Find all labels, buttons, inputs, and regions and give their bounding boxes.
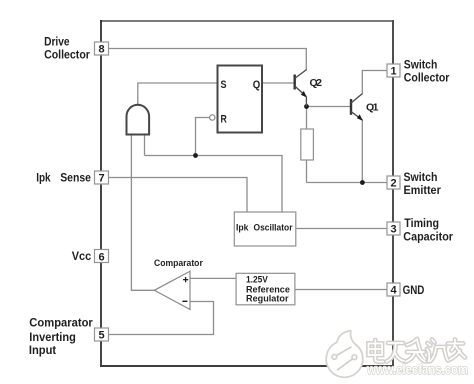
svg-text:Comparator: Comparator <box>154 258 203 268</box>
Ipk Oscillator block <box>234 212 295 246</box>
comparator plus sign <box>183 277 188 282</box>
svg-text:3: 3 <box>390 224 396 236</box>
watermark logo circle-leaf <box>326 331 363 378</box>
wire latch R input to node <box>196 118 210 156</box>
svg-text:Input: Input <box>29 344 56 357</box>
svg-text:1.25V: 1.25V <box>246 274 268 284</box>
transistor Q2 emitter arrow <box>301 91 307 98</box>
svg-text:www.elecfans.com: www.elecfans.com <box>366 362 468 377</box>
pin 1 box <box>387 64 400 77</box>
svg-text:Emitter: Emitter <box>404 184 442 197</box>
transistor Q1 <box>351 94 363 121</box>
transistor Q2 <box>295 70 307 107</box>
svg-text:R: R <box>221 114 227 126</box>
wire resistor bottom lead <box>306 160 308 183</box>
wire latch Q output to Q2 base <box>262 82 294 84</box>
transistor Q2 collector line <box>295 70 307 79</box>
pin 7 box <box>95 171 109 184</box>
svg-text:5: 5 <box>98 330 104 342</box>
wire resistor top lead <box>306 107 308 130</box>
svg-text:Ipk: Ipk <box>36 172 51 185</box>
svg-text:Q: Q <box>253 79 261 91</box>
wire pin5 to comparator minus input <box>109 302 214 335</box>
wire Q1 collector to pin1 <box>362 71 387 94</box>
wire bottom to pin2 <box>307 182 388 184</box>
svg-text:1: 1 <box>390 66 396 78</box>
svg-text:Ipk: Ipk <box>236 222 249 232</box>
svg-text:Timing: Timing <box>404 217 439 230</box>
svg-text:Capacitor: Capacitor <box>403 230 453 243</box>
svg-text:Oscillator: Oscillator <box>254 222 294 232</box>
svg-text:7: 7 <box>98 173 104 185</box>
resistor R1 <box>301 129 314 160</box>
svg-text:Vcc: Vcc <box>72 250 92 263</box>
svg-text:2: 2 <box>390 178 396 190</box>
wire pin7 to oscillator top <box>108 178 247 213</box>
comparator triangle <box>154 271 190 309</box>
svg-text:Inverting: Inverting <box>29 331 76 344</box>
svg-text:Switch: Switch <box>404 171 438 184</box>
pin 5 box <box>95 328 109 341</box>
1.25V Reference Regulator block <box>236 273 295 305</box>
wire reference to pin4 <box>295 289 388 291</box>
transistor Q1 emitter line <box>351 112 362 120</box>
wire node to oscillator top <box>145 156 283 213</box>
wire AND output to latch S input <box>138 83 217 105</box>
svg-text:Regulator: Regulator <box>246 294 289 304</box>
svg-text:S: S <box>221 79 227 91</box>
wire Q2 emitter to Q1 base <box>307 106 351 108</box>
svg-text:Q2: Q2 <box>310 77 323 89</box>
transistor Q1 base bar <box>350 99 352 115</box>
transistor Q2 emitter lead <box>305 97 307 107</box>
node R-AND junction <box>193 153 198 158</box>
pin 2 box <box>387 176 400 189</box>
wire reference to comparator plus input <box>188 277 237 279</box>
AND gate <box>127 105 150 135</box>
pin 3 box <box>387 222 400 235</box>
transistor Q2 emitter line <box>295 86 307 97</box>
wire pin8 to Q2 collector <box>108 49 306 70</box>
svg-text:Switch: Switch <box>404 59 438 72</box>
watermark chinese text <box>369 339 466 362</box>
wire Q1 emitter lead <box>361 120 363 183</box>
IC outline box <box>100 20 394 22</box>
pin 6 box <box>95 250 109 263</box>
svg-text:Drive: Drive <box>44 35 70 48</box>
latch U1 S-R box <box>218 66 263 133</box>
pin 8 box <box>95 42 109 55</box>
wire AND input 2 <box>144 135 146 156</box>
svg-text:Sense: Sense <box>60 172 91 185</box>
svg-text:Q1: Q1 <box>366 102 379 114</box>
svg-text:Comparator: Comparator <box>29 317 93 330</box>
wire comparator output to AND input 1 <box>131 135 154 291</box>
wire oscillator to pin3 <box>296 228 388 230</box>
transistor Q2 base bar <box>294 75 296 90</box>
svg-text:Collector: Collector <box>404 72 450 85</box>
svg-text:8: 8 <box>98 44 104 56</box>
node Q1 emitter junction <box>360 180 365 185</box>
transistor Q1 collector line <box>351 94 363 104</box>
svg-text:6: 6 <box>98 252 104 264</box>
svg-text:Collector: Collector <box>44 48 90 61</box>
node Q2 emitter junction <box>304 104 309 109</box>
comparator minus sign <box>182 300 187 302</box>
svg-text:4: 4 <box>390 285 397 297</box>
latch R inversion bubble <box>210 115 215 120</box>
svg-text:GND: GND <box>403 284 425 297</box>
pin 4 box <box>387 283 400 296</box>
transistor Q1 emitter arrow <box>357 114 363 121</box>
